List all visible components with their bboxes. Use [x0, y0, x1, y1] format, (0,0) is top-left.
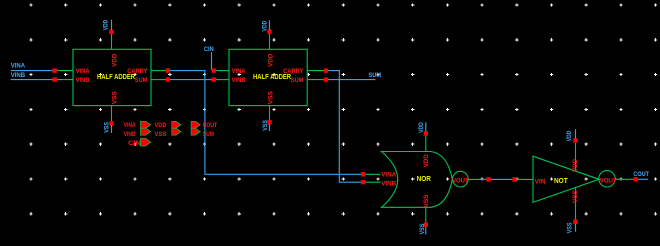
- NOR U3 VDD pin square: [424, 131, 428, 135]
- NOT output stub: [615, 178, 633, 180]
- node pin square B: [512, 177, 516, 181]
- svg-text:VSS: VSS: [419, 223, 426, 234]
- input pin flag VINB: [140, 128, 150, 135]
- output pin names: [203, 122, 218, 138]
- svg-text:VINB: VINB: [232, 77, 246, 84]
- wire SUM1 net: [170, 79, 212, 81]
- svg-text:VDD: VDD: [155, 122, 167, 129]
- svg-text:VDD: VDD: [572, 159, 579, 172]
- NOT input stub: [517, 178, 533, 180]
- svg-text:VINA: VINA: [124, 122, 136, 129]
- wire CIN net: [211, 52, 213, 70]
- U1 VDD supply wire: [111, 20, 113, 30]
- svg-text:COUT: COUT: [633, 171, 649, 178]
- wire COUT: [638, 178, 648, 180]
- wire CARRY1 net: [170, 71, 361, 175]
- half adder U1 pin labels: [76, 53, 148, 104]
- NOR gate U3 supply stubs: [425, 136, 427, 223]
- svg-text:VIN: VIN: [535, 178, 546, 185]
- svg-text:VDD: VDD: [261, 20, 268, 31]
- svg-text:VSS: VSS: [268, 91, 275, 105]
- NOT U4 VSS pin square: [573, 220, 577, 224]
- NOR U3 VSS supply wire: [425, 227, 427, 235]
- half adder U1 box: [57, 34, 166, 121]
- svg-text:VSS: VSS: [566, 222, 573, 233]
- svg-text:SUM: SUM: [368, 72, 381, 79]
- supply pin flag VSS: [172, 128, 181, 135]
- svg-text:VDD: VDD: [566, 130, 573, 141]
- svg-text:VDD: VDD: [112, 53, 119, 66]
- U2 VSS supply wire: [269, 124, 271, 131]
- NOR gate U3 input stubs: [365, 174, 380, 182]
- svg-text:CIN: CIN: [204, 46, 214, 53]
- NOR gate U3 outline: [382, 152, 453, 208]
- wire VINB input: [11, 79, 53, 81]
- svg-text:VSS: VSS: [155, 131, 167, 138]
- supply pin names: [155, 122, 167, 138]
- svg-text:HALF ADDER: HALF ADDER: [97, 74, 135, 81]
- svg-text:VSS: VSS: [112, 91, 119, 105]
- svg-text:VDD: VDD: [418, 122, 425, 133]
- supply pin flag VDD: [172, 121, 181, 128]
- svg-text:VOUT: VOUT: [452, 177, 469, 184]
- svg-text:VINA: VINA: [76, 68, 90, 75]
- svg-text:NOT: NOT: [554, 178, 568, 185]
- NOT gate U4 output bubble: [599, 171, 615, 187]
- half adder U1 pin squares: [52, 30, 170, 126]
- half adder U2 pin labels: [232, 53, 304, 104]
- NOR output stub: [468, 178, 486, 180]
- svg-text:VINB: VINB: [124, 131, 136, 138]
- NOR U3 input pin squares: [361, 172, 365, 176]
- NOT U4 VDD supply wire: [575, 129, 577, 138]
- svg-text:VSS: VSS: [262, 120, 269, 131]
- wire CARRY2 net: [328, 71, 361, 183]
- svg-text:VSS: VSS: [104, 122, 111, 133]
- U1 VSS supply wire: [111, 125, 113, 133]
- svg-text:VINB: VINB: [76, 77, 90, 84]
- svg-text:SUM: SUM: [203, 131, 214, 138]
- input pin flag VINA: [140, 121, 150, 128]
- NOT gate U4 supply stubs: [575, 143, 577, 220]
- svg-text:VINA: VINA: [11, 62, 26, 69]
- NOT gate U4 triangle: [533, 156, 599, 202]
- svg-text:VSS: VSS: [572, 189, 579, 203]
- svg-text:VINA: VINA: [381, 172, 396, 179]
- svg-text:VSS: VSS: [423, 194, 430, 208]
- input pin flag CIN: [140, 138, 150, 146]
- svg-text:VDD: VDD: [268, 53, 275, 66]
- NOT U4 VSS supply wire: [575, 224, 577, 232]
- svg-text:VINB: VINB: [11, 72, 26, 79]
- COUT pin square: [633, 177, 637, 181]
- svg-text:HALF ADDER: HALF ADDER: [253, 74, 291, 81]
- NOR U3 VSS pin square: [424, 222, 428, 226]
- half adder U2 box: [216, 34, 324, 120]
- half adder U2 pin squares: [212, 30, 329, 125]
- svg-text:VINA: VINA: [232, 68, 246, 75]
- svg-text:CIN: CIN: [128, 140, 141, 147]
- svg-text:NOR: NOR: [417, 176, 431, 183]
- schematic pin list: input pin names: [124, 122, 142, 147]
- svg-text:COUT: COUT: [203, 122, 218, 129]
- NOT U4 pin labels: [535, 159, 617, 203]
- NOR U3 pin labels: [381, 154, 469, 208]
- svg-text:VOUT: VOUT: [600, 177, 617, 184]
- wire VINA input: [11, 70, 53, 72]
- svg-text:VDD: VDD: [103, 19, 110, 30]
- svg-text:VINB: VINB: [381, 180, 396, 187]
- svg-text:SUM: SUM: [135, 77, 148, 84]
- wire SUM2 net (SUM output): [328, 79, 375, 81]
- wire NOR to NOT: [491, 178, 513, 180]
- NOR gate U3 output bubble: [453, 171, 469, 187]
- U2 VDD supply wire: [269, 20, 271, 30]
- svg-text:VDD: VDD: [423, 154, 430, 167]
- NOT U4 VDD pin square: [573, 138, 577, 142]
- output pin flag SUM: [191, 128, 200, 135]
- output pin flag COUT: [191, 121, 200, 128]
- NOR U3 VDD supply wire: [425, 122, 427, 131]
- svg-text:SUM: SUM: [291, 77, 304, 84]
- node pin square A: [486, 177, 490, 181]
